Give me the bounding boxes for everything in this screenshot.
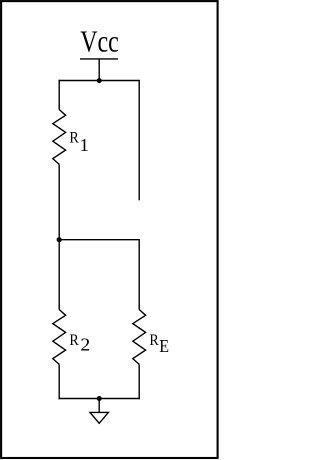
label RE [149,331,169,356]
svg-text:R: R [69,128,79,146]
ground [90,412,108,423]
label R1 [69,128,89,155]
wire left upper [58,80,60,110]
resistor R1 [53,110,66,165]
wire right upper (collector stub, open end) [138,80,140,201]
junction base node [57,237,62,242]
wire top horizontal [59,80,140,82]
resistor RE [133,310,146,365]
wire right bottom [138,364,140,399]
VCC supply bar [80,58,118,60]
junction ground node [97,396,102,401]
svg-text:R: R [149,331,159,349]
svg-text:2: 2 [80,335,90,355]
svg-text:E: E [159,336,169,356]
wire bottom horizontal [59,398,140,400]
resistor R2 [53,310,66,365]
border frame [1,1,218,458]
wire left lower [58,240,60,310]
wire left bottom [58,364,60,399]
junction top [97,78,102,83]
wire left middle [58,164,60,240]
wire ground stub [98,399,100,413]
wire VCC stub [98,59,100,81]
svg-text:R: R [69,331,79,349]
svg-text:Vcc: Vcc [80,25,119,59]
wire middle horizontal [59,239,139,241]
label R2 [69,331,90,355]
wire right middle (emitter branch down) [138,239,140,310]
svg-text:1: 1 [80,135,89,155]
